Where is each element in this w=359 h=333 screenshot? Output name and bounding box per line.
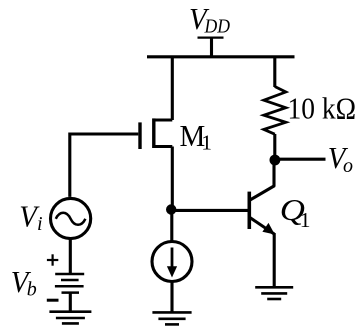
svg-text:b: b — [27, 279, 37, 301]
wire node Vo to Q1 collector — [272, 159, 275, 186]
wire node A to current source — [170, 210, 173, 242]
wire VDD tick to rail — [210, 38, 213, 57]
node A junction dot — [166, 204, 176, 214]
svg-text:10 kΩ: 10 kΩ — [288, 91, 357, 126]
wire Q1 emitter to ground — [273, 233, 276, 287]
ground under current source — [152, 312, 191, 324]
wire M1 gate to input — [70, 134, 139, 197]
ground under Q1 — [255, 287, 293, 299]
wire node A to Q1 base — [171, 209, 248, 212]
AC source Vi — [51, 198, 91, 238]
label Q1 — [280, 192, 311, 232]
wire rail to M1 drain — [171, 56, 174, 121]
svg-text:1: 1 — [201, 131, 212, 155]
VDD terminal tick — [198, 36, 224, 38]
wire rail to resistor — [273, 56, 276, 88]
label Vo — [328, 140, 353, 177]
label M1 — [180, 118, 213, 155]
battery Vb — [55, 274, 84, 293]
wire node Vo to label — [275, 158, 326, 161]
svg-text:i: i — [37, 213, 43, 235]
label Vb — [11, 264, 37, 301]
label Vi — [19, 199, 42, 236]
wire M1 source to node A — [171, 147, 174, 210]
label 10 kOhm — [288, 91, 357, 126]
svg-text:o: o — [343, 155, 353, 177]
transistor Q1 — [249, 186, 274, 235]
wire current source to ground — [170, 282, 173, 313]
plus sign — [47, 254, 58, 265]
node Vo junction dot — [270, 155, 281, 166]
wire supply rail — [147, 55, 295, 58]
wire Vi to battery Vb — [69, 239, 72, 274]
resistor 10k — [264, 87, 286, 135]
svg-text:DD: DD — [204, 16, 231, 38]
minus sign — [47, 299, 59, 302]
transistor M1 — [140, 118, 172, 149]
wire resistor to node Vo — [273, 134, 276, 159]
wire battery to ground — [69, 293, 72, 312]
ground under Vb — [49, 312, 91, 324]
current source I1 — [152, 242, 192, 282]
svg-text:1: 1 — [300, 208, 311, 232]
label VDD — [189, 1, 230, 38]
